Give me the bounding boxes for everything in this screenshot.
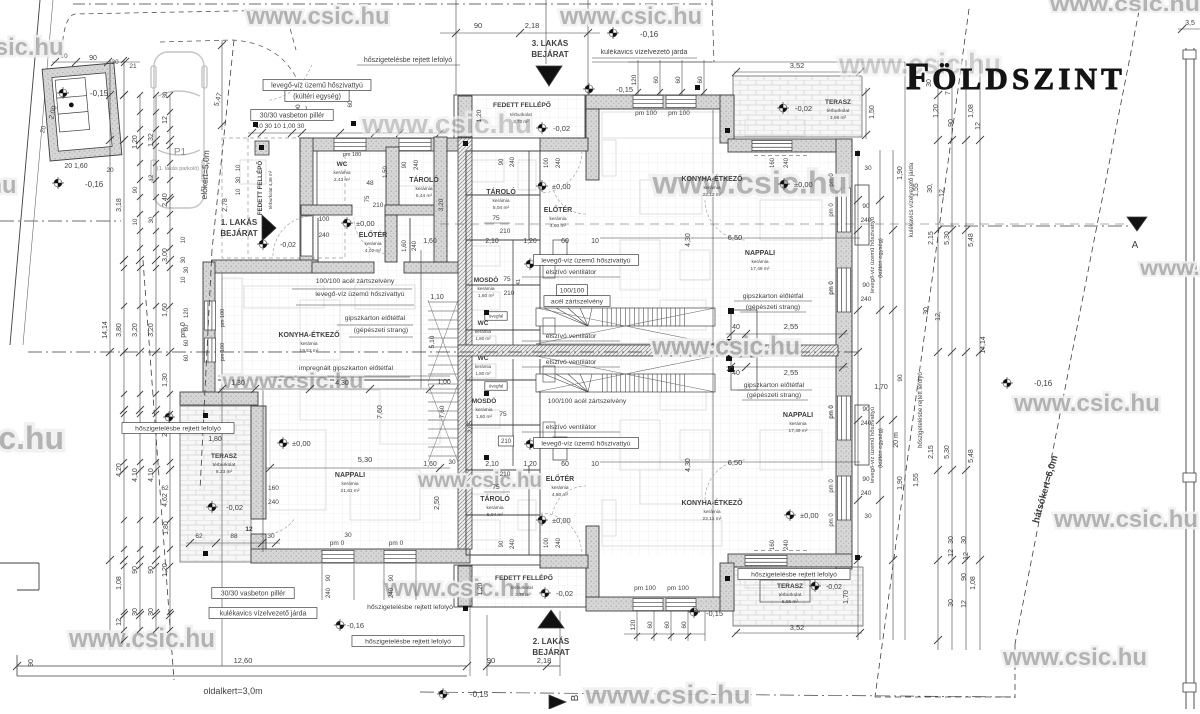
svg-text:2,40: 2,40 bbox=[162, 193, 169, 207]
svg-text:-0,16: -0,16 bbox=[85, 180, 104, 189]
svg-text:14,14: 14,14 bbox=[980, 336, 987, 354]
svg-text:3,18: 3,18 bbox=[116, 198, 123, 212]
svg-text:1,80: 1,80 bbox=[163, 521, 170, 535]
svg-text:(gépészeti strang): (gépészeti strang) bbox=[746, 304, 800, 311]
svg-text:10: 10 bbox=[181, 276, 187, 283]
svg-text:B: B bbox=[570, 694, 581, 701]
svg-text:ELŐTÉR: ELŐTÉR bbox=[544, 205, 572, 214]
svg-text:NAPPALI: NAPPALI bbox=[783, 412, 813, 419]
svg-text:90: 90 bbox=[132, 566, 139, 574]
svg-text:240: 240 bbox=[510, 538, 516, 549]
svg-text:20 1,60: 20 1,60 bbox=[64, 163, 87, 170]
svg-text:kerámia: kerámia bbox=[333, 170, 350, 176]
svg-text:±0,00: ±0,00 bbox=[794, 180, 813, 189]
svg-text:30: 30 bbox=[864, 165, 872, 172]
svg-text:5,30: 5,30 bbox=[944, 445, 951, 459]
svg-text:30: 30 bbox=[948, 599, 955, 607]
svg-text:1,20: 1,20 bbox=[523, 461, 537, 468]
svg-text:-0,16: -0,16 bbox=[347, 621, 364, 630]
svg-text:6,50: 6,50 bbox=[728, 233, 743, 242]
svg-text:hőszigetelésbe rejtett lefolyó: hőszigetelésbe rejtett lefolyó bbox=[367, 604, 453, 611]
svg-text:30: 30 bbox=[181, 256, 187, 263]
svg-text:4,30: 4,30 bbox=[685, 233, 692, 247]
svg-text:7,60: 7,60 bbox=[439, 405, 446, 418]
svg-text:4,20: 4,20 bbox=[116, 463, 123, 477]
svg-text:levegő-víz üzemű hőszivattyú: levegő-víz üzemű hőszivattyú bbox=[271, 83, 363, 90]
svg-text:30: 30 bbox=[184, 266, 190, 273]
svg-text:4,10: 4,10 bbox=[148, 468, 155, 482]
svg-text:1,08: 1,08 bbox=[116, 576, 123, 590]
svg-text:(kültéri egység): (kültéri egység) bbox=[878, 238, 884, 278]
svg-text:10: 10 bbox=[236, 188, 242, 195]
svg-text:3,20: 3,20 bbox=[148, 323, 155, 337]
svg-text:www.csic.hu: www.csic.hu bbox=[651, 332, 800, 360]
svg-text:1,08: 1,08 bbox=[970, 576, 977, 590]
svg-text:térburkolat: térburkolat bbox=[510, 112, 532, 117]
svg-text:2. LAKÁS: 2. LAKÁS bbox=[533, 637, 570, 646]
svg-text:-0,02: -0,02 bbox=[556, 589, 573, 598]
svg-text:90: 90 bbox=[961, 573, 968, 581]
svg-text:FEDETT FELLÉPŐ: FEDETT FELLÉPŐ bbox=[493, 100, 551, 109]
svg-text:1,20: 1,20 bbox=[477, 582, 484, 595]
svg-text:www.csic.hu: www.csic.hu bbox=[361, 109, 532, 139]
svg-text:NAPPALI: NAPPALI bbox=[745, 250, 775, 257]
svg-text:60: 60 bbox=[561, 238, 569, 245]
svg-text:30: 30 bbox=[948, 536, 955, 544]
svg-text:240: 240 bbox=[412, 240, 418, 251]
svg-text:60: 60 bbox=[681, 621, 688, 629]
svg-text:elszívó ventilátor: elszívó ventilátor bbox=[546, 359, 597, 366]
svg-text:www.csic.hu: www.csic.hu bbox=[559, 3, 702, 30]
svg-text:3,80: 3,80 bbox=[116, 323, 123, 337]
svg-text:30,: 30, bbox=[923, 305, 930, 315]
svg-text:pm 0: pm 0 bbox=[829, 203, 835, 217]
svg-text:www.csic.hu: www.csic.hu bbox=[0, 172, 17, 199]
svg-text:www.csic.hu: www.csic.hu bbox=[417, 468, 542, 492]
svg-text:TÁROLÓ: TÁROLÓ bbox=[486, 187, 516, 196]
svg-text:KONYHA-ÉTKEZŐ: KONYHA-ÉTKEZŐ bbox=[681, 498, 743, 507]
svg-text:240: 240 bbox=[556, 157, 562, 168]
svg-text:elszívó ventilátor: elszívó ventilátor bbox=[546, 269, 597, 276]
svg-text:62: 62 bbox=[161, 485, 169, 492]
svg-text:21: 21 bbox=[129, 63, 137, 70]
svg-text:WC: WC bbox=[337, 161, 348, 168]
svg-text:60: 60 bbox=[675, 76, 682, 84]
svg-text:TÁROLÓ: TÁROLÓ bbox=[409, 175, 439, 184]
svg-text:1,10: 1,10 bbox=[430, 294, 444, 301]
svg-text:kerámia: kerámia bbox=[477, 286, 494, 292]
svg-text:(kültéri egység): (kültéri egység) bbox=[878, 428, 884, 468]
svg-text:TERASZ: TERASZ bbox=[777, 583, 803, 590]
svg-text:210: 210 bbox=[373, 202, 384, 209]
svg-text:www.csic.hu: www.csic.hu bbox=[1049, 0, 1200, 16]
svg-text:75: 75 bbox=[492, 484, 500, 491]
svg-text:2,18: 2,18 bbox=[537, 656, 552, 665]
svg-text:5,30: 5,30 bbox=[358, 455, 373, 464]
svg-text:240: 240 bbox=[414, 159, 420, 170]
svg-text:40: 40 bbox=[732, 324, 740, 331]
svg-text:10: 10 bbox=[181, 236, 187, 243]
svg-text:±0,00: ±0,00 bbox=[356, 219, 375, 228]
svg-text:75: 75 bbox=[503, 276, 511, 283]
svg-text:100: 100 bbox=[544, 537, 550, 548]
svg-text:90: 90 bbox=[402, 161, 408, 168]
svg-text:1,60 m²: 1,60 m² bbox=[478, 293, 495, 299]
svg-text:1,30: 1,30 bbox=[231, 380, 245, 387]
svg-text:-0,02: -0,02 bbox=[280, 242, 296, 249]
svg-text:gipszkarton előtétfal: gipszkarton előtétfal bbox=[743, 293, 804, 300]
svg-text:240: 240 bbox=[861, 296, 872, 303]
svg-text:levegő-víz üzemű hőszivattyú: levegő-víz üzemű hőszivattyú bbox=[870, 407, 876, 483]
svg-text:12: 12 bbox=[948, 549, 955, 557]
svg-text:WC: WC bbox=[478, 320, 489, 327]
svg-text:3,20: 3,20 bbox=[132, 323, 139, 337]
svg-text:pm 0: pm 0 bbox=[829, 173, 835, 187]
svg-text:kerámia: kerámia bbox=[549, 216, 566, 222]
svg-text:90: 90 bbox=[389, 574, 395, 581]
svg-text:2,55: 2,55 bbox=[784, 322, 799, 331]
svg-text:3,20: 3,20 bbox=[438, 198, 445, 211]
svg-text:KONYHA-ÉTKEZŐ: KONYHA-ÉTKEZŐ bbox=[681, 174, 743, 183]
svg-text:(gépészeti strang): (gépészeti strang) bbox=[747, 392, 801, 399]
svg-text:www.csic.hu: www.csic.hu bbox=[1053, 506, 1198, 533]
svg-text:1,08: 1,08 bbox=[968, 104, 975, 118]
svg-text:(1. lakás parkoló): (1. lakás parkoló) bbox=[157, 166, 199, 172]
svg-text:1,90: 1,90 bbox=[897, 166, 904, 180]
svg-text:kulékavics vízelvezető járda: kulékavics vízelvezető járda bbox=[909, 162, 915, 237]
svg-text:88: 88 bbox=[230, 533, 238, 540]
svg-text:75: 75 bbox=[365, 195, 371, 202]
svg-text:12: 12 bbox=[975, 122, 982, 130]
svg-text:-0,15: -0,15 bbox=[470, 690, 489, 699]
svg-text:30: 30 bbox=[111, 59, 119, 66]
svg-text:4,10: 4,10 bbox=[132, 468, 139, 482]
svg-text:10: 10 bbox=[133, 218, 139, 225]
svg-text:hőszigetelésbe rejtett lefolyó: hőszigetelésbe rejtett lefolyó bbox=[751, 571, 837, 578]
svg-text:WC: WC bbox=[478, 355, 489, 362]
svg-text:1,50: 1,50 bbox=[869, 105, 876, 119]
svg-text:100/100: 100/100 bbox=[560, 287, 585, 294]
svg-text:12: 12 bbox=[963, 552, 970, 560]
svg-text:210: 210 bbox=[500, 228, 511, 235]
svg-text:levegő-víz üzemű hőszivattyú: levegő-víz üzemű hőszivattyú bbox=[315, 291, 404, 298]
svg-text:5,48: 5,48 bbox=[968, 449, 975, 463]
svg-text:üvegfal: üvegfal bbox=[489, 384, 504, 389]
svg-text:100: 100 bbox=[544, 157, 550, 168]
svg-text:12,60: 12,60 bbox=[234, 656, 253, 665]
svg-text:NAPPALI: NAPPALI bbox=[335, 472, 365, 479]
svg-text:5,44 m²: 5,44 m² bbox=[416, 193, 433, 199]
svg-text:20 m: 20 m bbox=[893, 432, 900, 448]
svg-text:FÖLDSZINT: FÖLDSZINT bbox=[906, 56, 1126, 98]
svg-text:120: 120 bbox=[184, 307, 190, 318]
svg-text:1,55: 1,55 bbox=[913, 473, 920, 487]
svg-text:FEDETT FELLÉPŐ: FEDETT FELLÉPŐ bbox=[495, 573, 553, 582]
svg-text:levegő-víz üzemű hőszivattyú: levegő-víz üzemű hőszivattyú bbox=[870, 217, 876, 293]
svg-text:120: 120 bbox=[630, 619, 637, 630]
svg-text:10: 10 bbox=[591, 461, 599, 468]
svg-text:pm 0: pm 0 bbox=[180, 322, 187, 338]
svg-text:7,60: 7,60 bbox=[377, 405, 384, 419]
svg-text:8,23 m²: 8,23 m² bbox=[216, 469, 233, 475]
svg-text:térburkolat 4,36 m²: térburkolat 4,36 m² bbox=[268, 170, 273, 209]
svg-text:240: 240 bbox=[556, 537, 562, 548]
svg-text:90: 90 bbox=[89, 55, 97, 62]
svg-text:1,80 m²: 1,80 m² bbox=[475, 371, 491, 376]
svg-text:19,53 m²: 19,53 m² bbox=[300, 348, 319, 354]
svg-text:elszívó ventilátor: elszívó ventilátor bbox=[546, 424, 597, 431]
svg-text:60: 60 bbox=[653, 76, 660, 84]
svg-text:kulékavics vízelvezető járda: kulékavics vízelvezető járda bbox=[220, 611, 307, 618]
svg-text:-0,15: -0,15 bbox=[90, 89, 109, 98]
svg-text:90: 90 bbox=[474, 21, 482, 30]
svg-text:240: 240 bbox=[510, 156, 516, 167]
svg-text:2,15: 2,15 bbox=[928, 445, 935, 459]
svg-text:2,10: 2,10 bbox=[485, 238, 499, 245]
svg-text:hőszigetelésbe rejtett lefolyó: hőszigetelésbe rejtett lefolyó bbox=[135, 425, 221, 432]
svg-text:pm 100: pm 100 bbox=[635, 110, 657, 117]
svg-text:A: A bbox=[1132, 240, 1139, 251]
svg-text:levegő-víz üzemű hőszivattyú: levegő-víz üzemű hőszivattyú bbox=[541, 257, 630, 264]
svg-text:pm 100: pm 100 bbox=[668, 110, 690, 117]
svg-text:90: 90 bbox=[28, 659, 35, 667]
svg-text:30: 30 bbox=[448, 459, 456, 466]
svg-text:pm 0: pm 0 bbox=[829, 513, 835, 527]
svg-text:90: 90 bbox=[499, 158, 505, 165]
svg-text:5,04 m²: 5,04 m² bbox=[493, 205, 510, 211]
svg-text:5,04 m²: 5,04 m² bbox=[487, 512, 504, 518]
svg-text:pm 0: pm 0 bbox=[389, 540, 404, 547]
svg-text:pm 100: pm 100 bbox=[634, 585, 656, 592]
svg-text:www.csic.hu: www.csic.hu bbox=[0, 34, 64, 61]
svg-text:kerámia: kerámia bbox=[364, 241, 381, 247]
svg-text:1,80: 1,80 bbox=[208, 436, 222, 443]
svg-text:BEJÁRAT: BEJÁRAT bbox=[220, 229, 257, 238]
svg-text:210: 210 bbox=[501, 439, 512, 445]
svg-text:1,70: 1,70 bbox=[843, 590, 850, 604]
svg-text:21,61 m²: 21,61 m² bbox=[341, 488, 360, 494]
svg-text:1,00: 1,00 bbox=[437, 379, 451, 386]
svg-text:30: 30 bbox=[267, 533, 275, 540]
svg-text:1,60: 1,60 bbox=[423, 461, 437, 468]
svg-text:3,70 m²: 3,70 m² bbox=[513, 119, 529, 124]
svg-text:4,30: 4,30 bbox=[335, 380, 349, 387]
svg-text:48: 48 bbox=[366, 180, 374, 187]
svg-text:1,30: 1,30 bbox=[162, 373, 169, 387]
svg-text:térburkolat: térburkolat bbox=[827, 108, 850, 114]
svg-text:acél zártszelvény: acél zártszelvény bbox=[551, 298, 604, 305]
svg-text:4,30: 4,30 bbox=[685, 458, 692, 472]
svg-text:-0,02: -0,02 bbox=[795, 104, 812, 113]
svg-text:KONYHA-ÉTKEZŐ: KONYHA-ÉTKEZŐ bbox=[278, 330, 340, 339]
svg-text:1,60 m²: 1,60 m² bbox=[476, 414, 493, 420]
svg-text:www.csic.hu: www.csic.hu bbox=[1002, 644, 1147, 671]
svg-text:10 30 10 1,00 30: 10 30 10 1,00 30 bbox=[256, 123, 305, 130]
svg-text:1,20: 1,20 bbox=[523, 238, 537, 245]
svg-text:kerámia: kerámia bbox=[703, 509, 720, 515]
svg-text:BEJÁRAT: BEJÁRAT bbox=[531, 50, 568, 59]
svg-text:5,48: 5,48 bbox=[968, 233, 975, 247]
svg-text:www.csic.hu: www.csic.hu bbox=[246, 3, 390, 30]
svg-text:2,10: 2,10 bbox=[485, 461, 499, 468]
svg-text:ELŐTÉR: ELŐTÉR bbox=[546, 474, 574, 483]
svg-text:kerámia: kerámia bbox=[703, 185, 720, 191]
svg-text:30: 30 bbox=[132, 608, 139, 616]
svg-text:240: 240 bbox=[319, 232, 330, 239]
svg-text:www.csic.hu: www.csic.hu bbox=[1013, 390, 1160, 417]
svg-text:4,02 m²: 4,02 m² bbox=[365, 248, 382, 254]
svg-text:kerámia: kerámia bbox=[475, 407, 492, 413]
svg-text:40: 40 bbox=[732, 370, 740, 377]
svg-text:90: 90 bbox=[499, 540, 505, 547]
svg-text:30/30 vasbeton pillér: 30/30 vasbeton pillér bbox=[221, 591, 286, 598]
svg-text:pm 100: pm 100 bbox=[667, 585, 689, 592]
svg-text:1,32: 1,32 bbox=[148, 133, 155, 147]
svg-text:12: 12 bbox=[961, 600, 968, 608]
svg-text:3,52: 3,52 bbox=[790, 61, 805, 70]
svg-text:kerámia: kerámia bbox=[789, 421, 806, 427]
svg-text:ELŐTÉR: ELŐTÉR bbox=[359, 230, 387, 239]
svg-text:240: 240 bbox=[268, 499, 279, 506]
svg-text:5,96 m²: 5,96 m² bbox=[782, 599, 799, 605]
svg-text:120: 120 bbox=[631, 74, 638, 85]
svg-text:4,62: 4,62 bbox=[162, 493, 169, 507]
svg-text:90: 90 bbox=[148, 566, 155, 574]
svg-text:5,30: 5,30 bbox=[944, 231, 951, 245]
svg-text:kerámia: kerámia bbox=[415, 186, 432, 192]
svg-text:6,50: 6,50 bbox=[728, 458, 743, 467]
svg-text:12: 12 bbox=[162, 116, 169, 124]
svg-text:12: 12 bbox=[245, 526, 253, 533]
svg-text:240: 240 bbox=[389, 587, 395, 598]
svg-text:1,20: 1,20 bbox=[933, 104, 940, 118]
svg-text:240: 240 bbox=[784, 539, 790, 550]
svg-text:1,70: 1,70 bbox=[874, 384, 888, 391]
svg-text:90: 90 bbox=[133, 186, 139, 193]
svg-text:2,55: 2,55 bbox=[784, 368, 799, 377]
svg-text:100/100 acél zártszelvény: 100/100 acél zártszelvény bbox=[548, 398, 627, 405]
svg-text:www.csic.hu: www.csic.hu bbox=[68, 623, 215, 653]
svg-text:P1: P1 bbox=[174, 147, 187, 158]
svg-text:levegő-víz üzemű hőszivattyú: levegő-víz üzemű hőszivattyú bbox=[541, 440, 630, 447]
svg-text:3,5: 3,5 bbox=[1185, 20, 1195, 27]
svg-text:17,49 m²: 17,49 m² bbox=[751, 266, 770, 272]
svg-text:pm 0: pm 0 bbox=[829, 405, 835, 419]
svg-text:±0,00: ±0,00 bbox=[552, 182, 571, 191]
svg-text:oldalkert=3,0m: oldalkert=3,0m bbox=[203, 686, 262, 696]
svg-text:www.csic.hu: www.csic.hu bbox=[0, 419, 64, 456]
svg-text:12,: 12, bbox=[935, 311, 942, 321]
svg-text:240: 240 bbox=[326, 587, 332, 598]
svg-text:kulékavics vízelvezető járda: kulékavics vízelvezető járda bbox=[601, 49, 688, 56]
svg-text:FEDETT FELLÉPŐ: FEDETT FELLÉPŐ bbox=[256, 161, 264, 216]
svg-text:kerámia: kerámia bbox=[475, 364, 492, 369]
svg-text:90: 90 bbox=[862, 476, 870, 483]
svg-text:-0,02: -0,02 bbox=[226, 503, 243, 512]
svg-text:100/100 acél zártszelvény: 100/100 acél zártszelvény bbox=[316, 278, 395, 285]
svg-text:10: 10 bbox=[236, 164, 242, 171]
svg-text:1,60: 1,60 bbox=[423, 238, 437, 245]
svg-text:kerámia: kerámia bbox=[300, 341, 317, 347]
svg-text:90: 90 bbox=[897, 374, 904, 382]
svg-text:1. LAKÁS: 1. LAKÁS bbox=[221, 218, 258, 227]
svg-text:160: 160 bbox=[770, 539, 776, 550]
svg-text:kerámia: kerámia bbox=[486, 505, 503, 511]
svg-text:pm 100: pm 100 bbox=[220, 309, 226, 327]
svg-text:kerámia: kerámia bbox=[751, 259, 768, 265]
svg-text:-0,02: -0,02 bbox=[553, 124, 570, 133]
svg-text:kerámia: kerámia bbox=[341, 481, 358, 487]
svg-text:2,50: 2,50 bbox=[434, 496, 441, 510]
svg-text:-0,02: -0,02 bbox=[826, 584, 842, 591]
svg-text:BEJÁRAT: BEJÁRAT bbox=[532, 648, 569, 657]
svg-text:térburkolat: térburkolat bbox=[213, 462, 236, 468]
svg-text:2,43 m²: 2,43 m² bbox=[334, 177, 351, 183]
svg-text:elszívó ventilátor: elszívó ventilátor bbox=[546, 333, 597, 340]
svg-text:10: 10 bbox=[591, 238, 599, 245]
svg-text:30: 30 bbox=[148, 608, 155, 616]
svg-text:2,18: 2,18 bbox=[525, 21, 540, 30]
svg-text:30: 30 bbox=[961, 536, 968, 544]
svg-text:14,14: 14,14 bbox=[102, 321, 109, 339]
svg-text:60: 60 bbox=[561, 461, 569, 468]
svg-text:1,20: 1,20 bbox=[162, 563, 169, 577]
svg-text:kerámia: kerámia bbox=[475, 329, 492, 334]
svg-text:1,20: 1,20 bbox=[476, 109, 483, 122]
svg-text:12,: 12, bbox=[939, 187, 946, 197]
svg-text:(gépészeti strang): (gépészeti strang) bbox=[354, 327, 408, 334]
svg-text:210: 210 bbox=[500, 471, 511, 478]
svg-text:1,90: 1,90 bbox=[897, 476, 904, 490]
svg-text:210: 210 bbox=[504, 290, 515, 297]
svg-text:TERASZ: TERASZ bbox=[825, 99, 851, 106]
svg-text:-0,16: -0,16 bbox=[1034, 379, 1053, 388]
svg-text:1,60: 1,60 bbox=[162, 303, 169, 317]
svg-text:30: 30 bbox=[344, 532, 352, 539]
svg-text:pm 180: pm 180 bbox=[343, 152, 361, 158]
svg-text:hőszigetelésbe rejtett lefolyó: hőszigetelésbe rejtett lefolyó bbox=[364, 57, 452, 64]
svg-text:41: 41 bbox=[516, 279, 522, 285]
svg-text:75: 75 bbox=[499, 411, 507, 418]
svg-text:pm 0: pm 0 bbox=[829, 479, 835, 493]
svg-text:térburkolat: térburkolat bbox=[511, 585, 533, 590]
svg-text:12: 12 bbox=[149, 174, 155, 181]
svg-text:60: 60 bbox=[184, 339, 190, 346]
svg-text:90: 90 bbox=[326, 574, 332, 581]
svg-text:60: 60 bbox=[184, 354, 190, 361]
svg-text:1,50: 1,50 bbox=[383, 166, 389, 178]
svg-text:17,49 m²: 17,49 m² bbox=[789, 428, 808, 434]
svg-text:MOSDÓ: MOSDÓ bbox=[472, 396, 497, 405]
svg-text:30: 30 bbox=[163, 91, 169, 98]
svg-text:90: 90 bbox=[862, 282, 870, 289]
svg-text:3,98 m²: 3,98 m² bbox=[830, 115, 847, 121]
svg-text:30: 30 bbox=[236, 176, 242, 183]
svg-text:MOSDÓ: MOSDÓ bbox=[474, 275, 499, 284]
svg-text:160: 160 bbox=[268, 485, 279, 492]
svg-text:2,15: 2,15 bbox=[928, 231, 935, 245]
svg-text:www.csic.hu: www.csic.hu bbox=[1139, 256, 1200, 280]
svg-text:hőszigetelésbe rejtett lefolyó: hőszigetelésbe rejtett lefolyó bbox=[365, 638, 451, 645]
svg-text:pm 0: pm 0 bbox=[829, 281, 835, 295]
svg-text:gipszkarton előtétfal: gipszkarton előtétfal bbox=[345, 315, 406, 322]
svg-text:4,80 m²: 4,80 m² bbox=[552, 492, 569, 498]
svg-text:30,: 30, bbox=[927, 183, 934, 193]
svg-text:30: 30 bbox=[864, 513, 872, 520]
svg-text:±0,00: ±0,00 bbox=[292, 439, 311, 448]
svg-text:2,05: 2,05 bbox=[468, 421, 474, 433]
svg-text:www.csic.hu: www.csic.hu bbox=[584, 681, 750, 709]
